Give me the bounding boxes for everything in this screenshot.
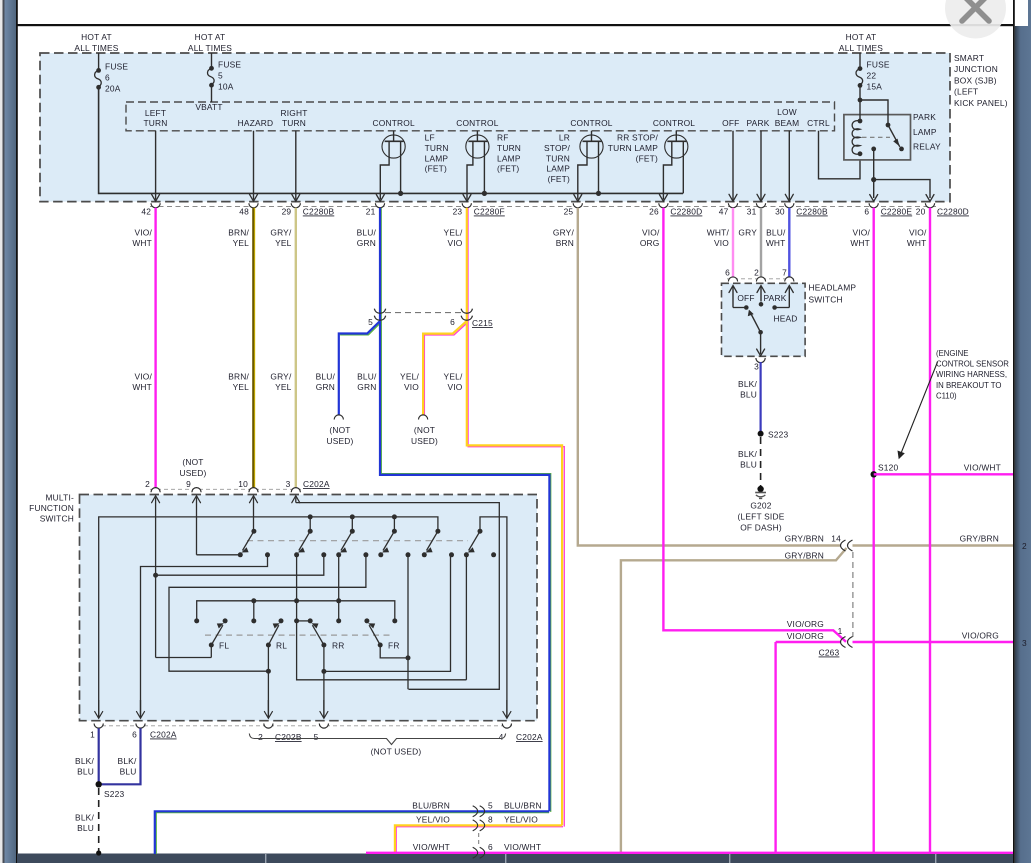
- svg-text:6: 6: [725, 268, 730, 278]
- pin 4 MFS bottom C202A: [499, 700, 543, 742]
- svg-text:RIGHT: RIGHT: [280, 108, 307, 118]
- svg-text:BLU: BLU: [120, 767, 137, 777]
- svg-text:2: 2: [258, 732, 263, 742]
- svg-text:6: 6: [864, 207, 869, 217]
- headlamp switch wiper arm: [748, 310, 765, 356]
- node RIGHT TURN: [280, 108, 307, 128]
- svg-text:VIO/ORG: VIO/ORG: [962, 631, 999, 641]
- splice S223: [758, 430, 789, 440]
- svg-text:BLU: BLU: [740, 460, 757, 470]
- svg-text:GRN: GRN: [357, 382, 376, 392]
- connector strip dashed at MFS bottom: [95, 725, 512, 727]
- svg-text:YEL/VIO: YEL/VIO: [504, 815, 538, 825]
- wire VIO/WHT from S120 to right edge: [874, 473, 1013, 475]
- svg-text:3: 3: [1022, 638, 1027, 648]
- svg-text:ALL TIMES: ALL TIMES: [188, 43, 232, 53]
- svg-text:BRN/: BRN/: [228, 228, 249, 238]
- svg-text:OFF: OFF: [722, 118, 739, 128]
- mechanical dashed link lower switch row: [205, 634, 390, 636]
- svg-text:OF DASH): OF DASH): [740, 523, 782, 533]
- svg-text:C2280D: C2280D: [670, 207, 702, 217]
- svg-text:GRN: GRN: [316, 382, 335, 392]
- pin 42 SJB connector: [141, 203, 160, 216]
- pin 23 SJB connector: [453, 203, 505, 216]
- connector strip dashed at headlamp switch top: [727, 278, 796, 280]
- svg-text:(NOT USED): (NOT USED): [371, 747, 422, 757]
- svg-text:SWITCH: SWITCH: [40, 514, 74, 524]
- label YEL/VIO main: [444, 372, 463, 392]
- svg-text:RF: RF: [497, 133, 509, 143]
- label BLK/BLU (pin3 wire): [738, 379, 757, 400]
- svg-text:(ENGINE: (ENGINE: [936, 349, 969, 358]
- svg-text:G202: G202: [750, 501, 771, 511]
- wire GRY/BRN continues right of connector 14: [853, 544, 1014, 546]
- SJB inner label sub-box: [126, 102, 835, 131]
- wire FR pivot to plain contact 4 drop: [380, 645, 408, 658]
- svg-text:6: 6: [132, 730, 137, 740]
- svg-text:10A: 10A: [218, 81, 234, 91]
- pin 9 MFS top (not used): [186, 479, 201, 492]
- svg-text:HOT AT: HOT AT: [195, 32, 226, 42]
- svg-text:6: 6: [105, 72, 110, 82]
- svg-text:21: 21: [366, 207, 376, 217]
- label (NOT USED) above pin 9: [179, 457, 206, 478]
- svg-text:1: 1: [90, 730, 95, 740]
- svg-text:20: 20: [916, 207, 926, 217]
- svg-text:2: 2: [145, 479, 150, 489]
- svg-text:USED): USED): [179, 468, 206, 478]
- label WHT/VIO (pin47): [707, 228, 730, 248]
- svg-text:VIO: VIO: [714, 238, 729, 248]
- svg-text:PARK: PARK: [747, 118, 770, 128]
- svg-text:31: 31: [747, 207, 757, 217]
- connector in-line pin 8 YEL/VIO: [473, 815, 493, 831]
- svg-text:47: 47: [719, 207, 729, 217]
- svg-text:FUSE: FUSE: [867, 60, 890, 70]
- svg-text:(LEFT: (LEFT: [954, 87, 978, 97]
- svg-text:BLU/: BLU/: [357, 228, 377, 238]
- svg-text:30: 30: [775, 207, 785, 217]
- wire RR upper contact bar: [297, 620, 311, 622]
- svg-text:6: 6: [488, 842, 493, 852]
- svg-text:3: 3: [754, 362, 759, 372]
- label BLU/WHT (pin30): [766, 228, 786, 248]
- wire BLU/BRN corner at bottom left: [156, 813, 549, 854]
- bottom bar separators: [265, 854, 936, 863]
- svg-text:LR: LR: [559, 133, 570, 143]
- right sidebar panel: [1015, 26, 1031, 863]
- pin 2 headlamp switch: [754, 268, 765, 302]
- wire plain contact 3 via left drop to RL pivot line: [169, 555, 366, 671]
- switch S2 upper row: [294, 529, 326, 558]
- headlamp switch PARK contact: [759, 293, 787, 307]
- svg-text:VIO/WHT: VIO/WHT: [504, 842, 541, 852]
- svg-text:YEL: YEL: [275, 382, 292, 392]
- svg-text:RR: RR: [332, 641, 345, 651]
- pin 2 MFS bottom C202B: [258, 700, 302, 742]
- transistor RR output FET: [659, 131, 688, 202]
- left scrollbar strip: [0, 0, 16, 863]
- switch S6 upper row: [464, 529, 496, 558]
- svg-text:(NOT: (NOT: [329, 425, 350, 435]
- svg-text:GRY: GRY: [738, 228, 757, 238]
- svg-text:FR: FR: [388, 641, 400, 651]
- label BLK/BLU pin1: [75, 756, 94, 777]
- connector C215 dashed link: [385, 312, 462, 314]
- pin 1 MFS bottom: [90, 700, 103, 740]
- switch S3 upper row: [336, 529, 368, 558]
- svg-text:GRY/: GRY/: [270, 228, 292, 238]
- svg-text:TURN: TURN: [546, 153, 570, 163]
- pin 30 SJB connector: [775, 203, 828, 216]
- fuse 6 20A: [95, 53, 129, 93]
- svg-text:LAMP: LAMP: [913, 127, 937, 137]
- svg-text:CONTROL: CONTROL: [456, 118, 498, 128]
- svg-text:WHT: WHT: [766, 238, 786, 248]
- close button: [945, 0, 1006, 39]
- svg-text:WHT: WHT: [850, 238, 870, 248]
- svg-text:(NOT: (NOT: [414, 425, 435, 435]
- svg-text:TURN: TURN: [425, 143, 449, 153]
- wire VIO/ORG pin26 down to C263 pin1: [663, 208, 846, 642]
- svg-text:WIRING HARNESS,: WIRING HARNESS,: [936, 370, 1007, 379]
- label GRY/YEL lower: [270, 372, 292, 392]
- label MULTI-FUNCTION SWITCH: [29, 493, 74, 524]
- label HEADLAMP SWITCH: [809, 283, 857, 305]
- label BLK/BLU lower dashed: [75, 813, 94, 834]
- wire plain contact 1 to MFS pin 6: [141, 555, 268, 718]
- pin 3 headlamp switch: [754, 358, 765, 372]
- brace (NOT USED) under C202B pins: [249, 734, 505, 757]
- svg-text:C202A: C202A: [150, 730, 177, 740]
- wire FL pivot drop: [210, 645, 212, 658]
- switch RR: [308, 618, 345, 650]
- svg-text:26: 26: [649, 207, 659, 217]
- switch FR: [364, 618, 399, 650]
- svg-text:JUNCTION: JUNCTION: [954, 64, 998, 74]
- svg-text:VIO/: VIO/: [909, 228, 927, 238]
- svg-text:BLU: BLU: [740, 390, 757, 400]
- connector column dashed between rows: [478, 833, 480, 845]
- svg-text:LAMP: LAMP: [425, 153, 449, 163]
- wire BLK/BLU dashed S223 to G202: [760, 437, 762, 487]
- svg-text:LAMP: LAMP: [497, 153, 521, 163]
- svg-text:C2280D: C2280D: [937, 207, 969, 217]
- svg-text:YEL: YEL: [233, 382, 250, 392]
- svg-text:42: 42: [141, 207, 151, 217]
- svg-text:FUSE: FUSE: [105, 61, 128, 71]
- switch S1 upper row: [238, 529, 270, 558]
- pin 47 SJB connector: [719, 203, 738, 216]
- svg-text:TURN: TURN: [497, 143, 521, 153]
- svg-text:CONTROL: CONTROL: [373, 118, 415, 128]
- svg-text:YEL/VIO: YEL/VIO: [416, 815, 450, 825]
- page right border: [1013, 0, 1015, 863]
- wire GRY pin31 to headlamp switch pin2: [760, 208, 762, 279]
- relay park lamp relay: [844, 85, 911, 159]
- label BLU/GRN main: [357, 372, 377, 392]
- svg-text:LAMP: LAMP: [546, 164, 570, 174]
- wire MFS pin3 internal feed right and down: [292, 496, 500, 690]
- wire BLU/GRN not-used stub below C215: [340, 322, 381, 335]
- svg-text:BLK/: BLK/: [738, 379, 757, 389]
- label BRN/YEL lower: [228, 372, 249, 392]
- transistor LF output FET: [376, 131, 405, 202]
- svg-text:WHT: WHT: [907, 238, 927, 248]
- wire VIO/ORG left segment and drop at 775.6: [776, 641, 841, 643]
- svg-text:BRN: BRN: [556, 238, 574, 248]
- svg-text:BLK/: BLK/: [75, 813, 94, 823]
- wire BLK/BLU headlamp switch pin3 to S223: [759, 362, 761, 434]
- switch S4 upper row: [378, 529, 410, 558]
- wire YEL/VIO not-used stub below C215: [424, 322, 468, 415]
- svg-text:LOW: LOW: [777, 107, 797, 117]
- svg-text:YEL/: YEL/: [400, 372, 419, 382]
- page left border: [16, 0, 18, 863]
- pin 6 MFS bottom: [132, 700, 177, 740]
- wire MFS feed bus to upper contacts: [99, 514, 438, 718]
- wire arrow contact 2 long vertical: [294, 555, 466, 680]
- svg-text:10: 10: [238, 479, 248, 489]
- svg-text:CTRL: CTRL: [807, 118, 830, 128]
- svg-text:(FET): (FET): [548, 174, 570, 184]
- svg-text:FUSE: FUSE: [218, 59, 241, 69]
- connector in-line pin 6 VIO/WHT: [473, 842, 493, 858]
- wire BLK/BLU MFS pin1 to S223: [98, 728, 100, 784]
- wire VIO/WHT pin42 to MFS pin2: [154, 208, 156, 488]
- svg-text:C2280E: C2280E: [881, 207, 913, 217]
- headlamp switch HEAD contact: [772, 305, 797, 323]
- svg-text:OFF: OFF: [737, 293, 754, 303]
- connector pin 1 C263 (VIO/ORG): [819, 626, 853, 658]
- wire LOW BEAM to pin 30: [785, 131, 793, 202]
- svg-text:7: 7: [782, 268, 787, 278]
- svg-text:BRN/: BRN/: [228, 372, 249, 382]
- svg-text:(FET): (FET): [497, 164, 519, 174]
- svg-text:VBATT: VBATT: [195, 102, 222, 112]
- svg-text:5: 5: [218, 70, 223, 80]
- svg-text:RR STOP/: RR STOP/: [617, 133, 658, 143]
- svg-text:C202A: C202A: [303, 479, 330, 489]
- top toolbar separator line: [17, 24, 1014, 26]
- svg-text:STOP/: STOP/: [544, 143, 570, 153]
- wire VIO/ORG right of connector C263: [853, 641, 1014, 643]
- svg-text:BEAM: BEAM: [775, 118, 800, 128]
- pin 3 MFS top: [286, 479, 330, 492]
- svg-text:KICK PANEL): KICK PANEL): [954, 98, 1008, 108]
- label BLK/BLU pin6: [118, 756, 137, 777]
- mechanical dashed link upper switch row: [247, 540, 468, 542]
- connector C215 pin 5: [368, 317, 373, 327]
- wire plain contact 5 down to RR link: [326, 555, 451, 672]
- svg-text:FUNCTION: FUNCTION: [29, 503, 74, 513]
- wire MFS pin9 internal to switch1 arrow contact: [193, 496, 241, 555]
- svg-text:BLK/: BLK/: [75, 756, 94, 766]
- svg-text:ALL TIMES: ALL TIMES: [74, 43, 118, 53]
- svg-text:C202B: C202B: [275, 732, 302, 742]
- svg-text:25: 25: [564, 207, 574, 217]
- svg-text:(FET): (FET): [636, 153, 658, 163]
- wire WHT/VIO pin47 to headlamp switch pin6: [732, 208, 734, 279]
- label SMART JUNCTION BOX (SJB) (LEFT KICK PANEL): [954, 53, 1008, 108]
- svg-text:VIO/: VIO/: [852, 228, 870, 238]
- pin 5 MFS bottom: [314, 700, 329, 742]
- transistor LR output FET: [574, 131, 603, 202]
- node HOT AT ALL TIMES (fuse 22): [839, 32, 883, 53]
- svg-text:BLU/: BLU/: [766, 228, 786, 238]
- svg-text:CONTROL SENSOR: CONTROL SENSOR: [936, 360, 1009, 369]
- ground G202: [738, 486, 785, 533]
- pin 6 SJB connector: [864, 203, 912, 216]
- svg-text:GRY/: GRY/: [553, 228, 575, 238]
- svg-text:BLK/: BLK/: [118, 756, 137, 766]
- wire plain contact 4 down through FR junction: [407, 555, 409, 690]
- svg-text:2: 2: [754, 268, 759, 278]
- svg-text:C2280B: C2280B: [303, 207, 335, 217]
- pin 2 MFS top: [145, 479, 160, 492]
- wire lower distribution line: [194, 598, 397, 623]
- label YEL/VIO stub: [400, 372, 419, 392]
- pin 21 SJB connector: [366, 203, 385, 216]
- wire GRY/BRN second run from connector down left: [621, 548, 847, 854]
- wire RL pivot to MFS pin 2 bottom: [266, 645, 271, 718]
- multi-function switch dashed box: [80, 495, 538, 721]
- svg-text:VIO: VIO: [447, 382, 462, 392]
- svg-text:BLU/BRN: BLU/BRN: [412, 801, 450, 811]
- pin 10 MFS top: [238, 479, 258, 492]
- svg-text:GRY/: GRY/: [270, 372, 292, 382]
- wire BLU/WHT pin30 to headlamp switch pin7: [788, 208, 790, 279]
- connector pin 14 (GRY/BRN): [831, 534, 852, 552]
- svg-text:YEL: YEL: [275, 238, 292, 248]
- wire fuse6 down to bus: [99, 87, 683, 193]
- svg-text:HAZARD: HAZARD: [238, 118, 274, 128]
- svg-text:ALL TIMES: ALL TIMES: [839, 43, 883, 53]
- pin 31 SJB connector: [747, 203, 766, 216]
- svg-text:RL: RL: [276, 641, 287, 651]
- wire VIO/WHT pin20 down to bottom: [929, 208, 931, 854]
- wire BLK/BLU dashed S223 down to bottom: [96, 788, 101, 856]
- wire arrow contact 3 vertical: [336, 555, 341, 621]
- label (NOT USED) gold stub: [411, 425, 438, 446]
- wire LEFT TURN to pin 42: [152, 131, 160, 202]
- svg-text:PARK: PARK: [913, 112, 936, 122]
- wire RR pivot to MFS pin 5 bottom: [321, 645, 326, 718]
- headlamp switch OFF contact: [733, 293, 755, 310]
- node LOW BEAM: [775, 107, 800, 128]
- svg-text:2: 2: [1022, 541, 1027, 551]
- wire fuse5 to VBATT sub-box: [211, 85, 213, 102]
- svg-text:WHT: WHT: [132, 238, 152, 248]
- svg-text:LF: LF: [425, 133, 435, 143]
- svg-text:IN BREAKOUT TO: IN BREAKOUT TO: [936, 381, 1001, 390]
- svg-text:VIO/WHT: VIO/WHT: [964, 463, 1001, 473]
- label VIO/WHT (pin20): [907, 228, 927, 248]
- svg-text:SWITCH: SWITCH: [809, 295, 843, 305]
- svg-text:GRN: GRN: [357, 238, 376, 248]
- wire MFS pin2 internal (to FL pivot, junction to plain2): [152, 496, 212, 658]
- connector C263 dashed link: [852, 552, 854, 637]
- svg-text:1: 1: [838, 626, 843, 636]
- wire MFS upper contact 6 feed to pin 4: [480, 517, 507, 718]
- svg-text:5: 5: [488, 801, 493, 811]
- node HOT AT ALL TIMES (fuse 5): [188, 32, 232, 53]
- svg-text:VIO/ORG: VIO/ORG: [787, 631, 824, 641]
- pin 7 headlamp switch: [782, 268, 794, 308]
- splice S223 (left): [96, 781, 125, 799]
- label GRY/BRN (pin25): [553, 228, 575, 248]
- svg-text:C110): C110): [936, 391, 957, 400]
- svg-text:WHT/: WHT/: [707, 228, 730, 238]
- wire OFF to pin 47: [729, 131, 737, 202]
- svg-text:FL: FL: [219, 641, 229, 651]
- svg-text:CONTROL: CONTROL: [653, 118, 695, 128]
- label PARK LAMP RELAY: [913, 112, 941, 152]
- label VIO/WHT (pin42): [132, 228, 152, 248]
- label BRN/YEL (pin48): [228, 228, 249, 248]
- fuse 5 10A: [208, 53, 242, 91]
- svg-text:(NOT: (NOT: [182, 457, 203, 467]
- svg-text:HOT AT: HOT AT: [81, 32, 112, 42]
- svg-text:WHT: WHT: [132, 382, 152, 392]
- svg-text:S120: S120: [878, 463, 899, 473]
- svg-text:HEAD: HEAD: [773, 314, 797, 324]
- svg-text:ORG: ORG: [640, 238, 660, 248]
- connector strip dashed at MFS top: [150, 488, 302, 490]
- svg-text:48: 48: [239, 207, 249, 217]
- connector C215 pin 6: [450, 317, 493, 328]
- svg-text:C2280B: C2280B: [796, 207, 828, 217]
- svg-text:GRY/BRN: GRY/BRN: [785, 534, 824, 544]
- wire BLK/BLU MFS pin6 to S223: [101, 728, 141, 784]
- svg-text:29: 29: [282, 207, 292, 217]
- wire YEL/VIO pin23 to C215 pin6: [467, 208, 469, 321]
- svg-text:BOX (SJB): BOX (SJB): [954, 75, 997, 85]
- engine control sensor note and arrow: [898, 349, 1010, 459]
- svg-text:GRY/BRN: GRY/BRN: [960, 534, 999, 544]
- svg-text:VIO: VIO: [447, 238, 462, 248]
- svg-text:YEL/: YEL/: [444, 372, 463, 382]
- svg-text:HOT AT: HOT AT: [846, 32, 877, 42]
- label GRY/YEL (pin29): [270, 228, 292, 248]
- pin 25 SJB connector: [564, 203, 583, 216]
- pin 20 SJB connector: [916, 203, 969, 216]
- label VIO/WHT lower (pin42 wire): [132, 372, 152, 392]
- svg-text:VIO/WHT: VIO/WHT: [413, 842, 450, 852]
- svg-text:BLU/: BLU/: [357, 372, 377, 382]
- svg-text:TURN LAMP: TURN LAMP: [608, 143, 658, 153]
- svg-text:8: 8: [488, 815, 493, 825]
- svg-text:BLU/BRN: BLU/BRN: [504, 801, 542, 811]
- label BLU/GRN (pin21): [357, 228, 377, 248]
- pin 29 SJB connector: [282, 203, 335, 216]
- smart junction box (SJB) dashed outline: [40, 53, 950, 202]
- svg-text:VIO/: VIO/: [134, 228, 152, 238]
- wire BRN/YEL pin48 to MFS pin10: [254, 208, 256, 488]
- svg-text:22: 22: [867, 71, 877, 81]
- node LEFT TURN: [143, 108, 167, 128]
- wire GRY/BRN pin25 down and right to connector 14: [578, 208, 841, 546]
- wire MFS pin10 internal to upper contact 1: [250, 496, 258, 532]
- wire arrow contact 6 vertical: [465, 555, 467, 680]
- svg-text:VIO: VIO: [404, 382, 419, 392]
- connector C215 cups overlay: [374, 309, 472, 321]
- svg-text:15A: 15A: [867, 82, 883, 92]
- connector strip dashed line under SJB: [150, 206, 936, 208]
- wire BLU/GRN pin21 to C215 pin5: [380, 208, 382, 321]
- svg-text:GRY/BRN: GRY/BRN: [785, 551, 824, 561]
- wire YEL/VIO bottom row: [395, 825, 563, 854]
